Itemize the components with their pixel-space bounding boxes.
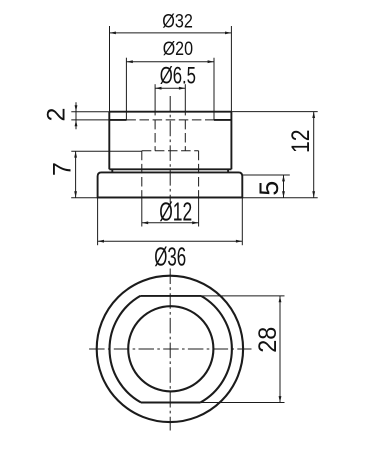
svg-text:2: 2 — [43, 108, 71, 122]
svg-text:7: 7 — [48, 162, 76, 176]
svg-text:5: 5 — [254, 181, 284, 196]
svg-text:28: 28 — [254, 327, 282, 353]
svg-text:Ø12: Ø12 — [159, 197, 192, 227]
svg-text:Ø20: Ø20 — [163, 39, 193, 60]
svg-text:Ø36: Ø36 — [154, 242, 186, 272]
svg-text:12: 12 — [287, 130, 315, 154]
svg-text:Ø6.5: Ø6.5 — [160, 63, 196, 90]
svg-text:Ø32: Ø32 — [162, 11, 193, 32]
